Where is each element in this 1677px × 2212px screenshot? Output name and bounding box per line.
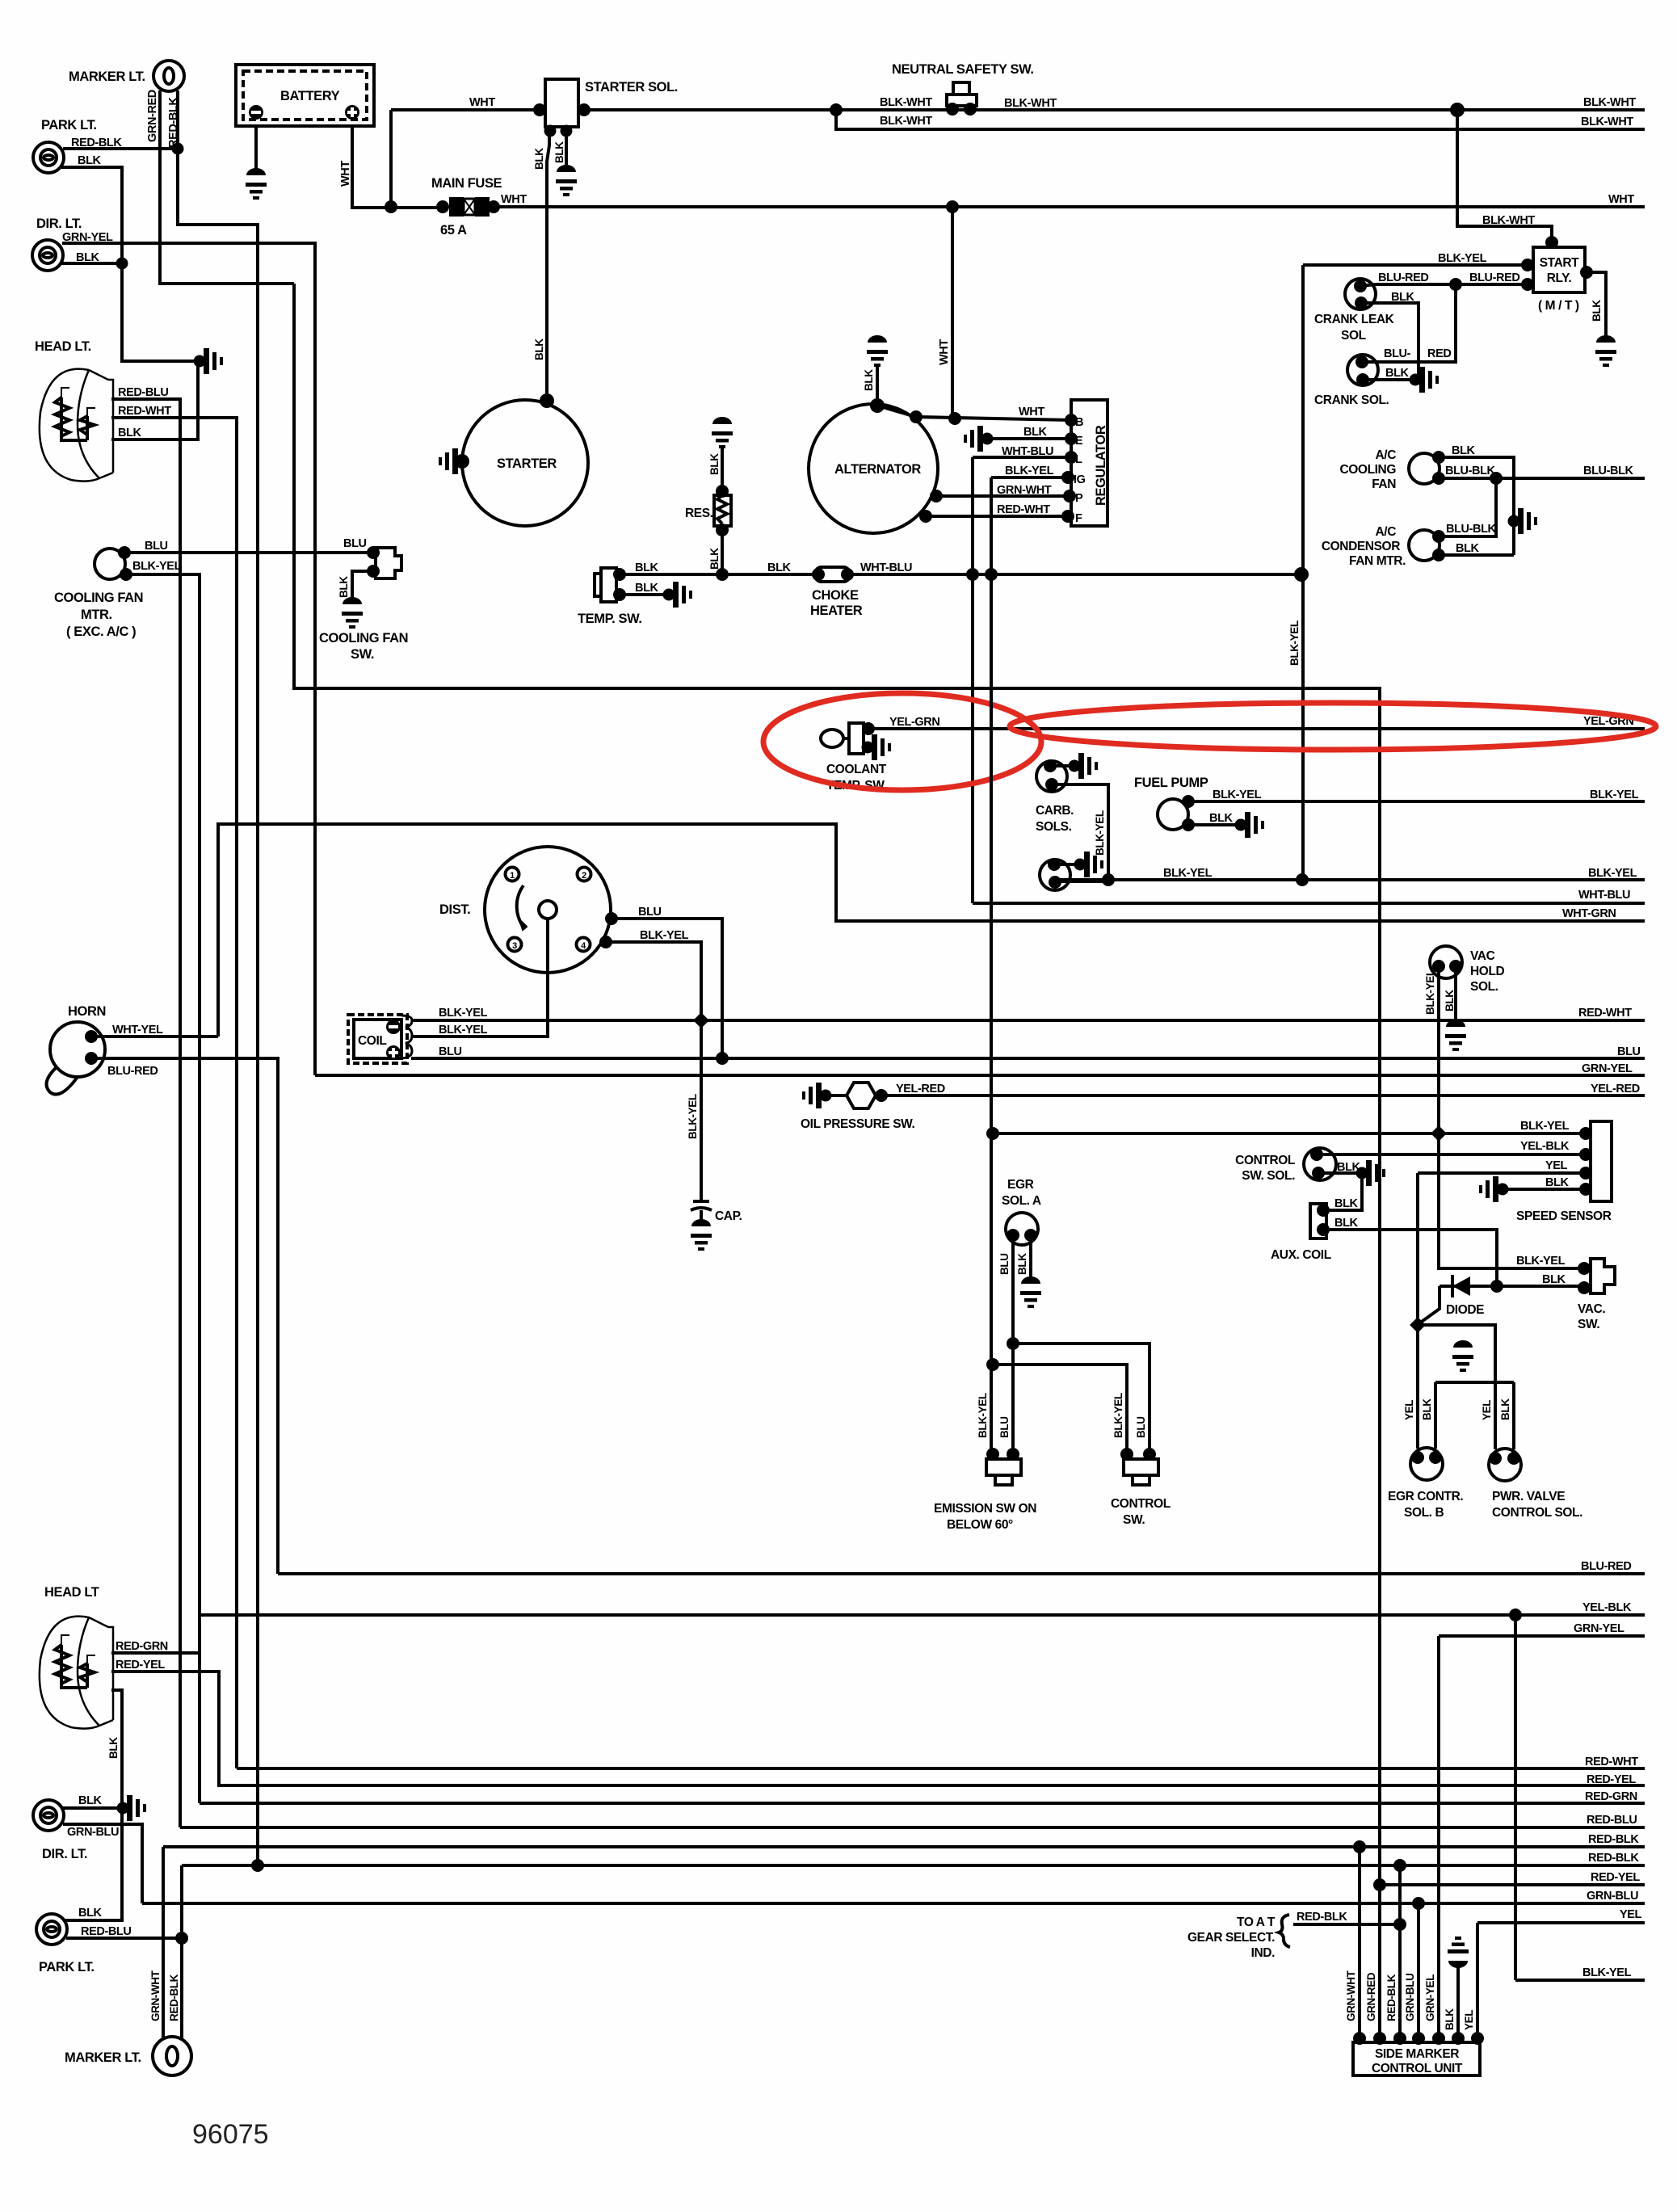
svg-text:ALTERNATOR: ALTERNATOR	[834, 462, 921, 477]
wire BLK park light 2	[65, 1808, 122, 1920]
junction dir BLK	[116, 258, 128, 270]
svg-text:BLK-YEL: BLK-YEL	[132, 560, 182, 573]
headlight 2 filaments	[55, 1645, 87, 1688]
wire BLU EGR sol A down	[1011, 1235, 1015, 1459]
svg-text:GRN-YEL: GRN-YEL	[62, 231, 113, 244]
svg-text:BLK-WHT: BLK-WHT	[880, 96, 932, 109]
svg-text:BLK-WHT: BLK-WHT	[880, 115, 932, 128]
svg-text:BLU: BLU	[439, 1045, 462, 1058]
svg-text:GRN-BLU: GRN-BLU	[67, 1826, 119, 1839]
wire WHT-BLU to regulator L	[973, 456, 1071, 459]
svg-text:MAIN FUSE: MAIN FUSE	[431, 176, 502, 191]
wire BLK ground to speed sensor	[1479, 1176, 1509, 1202]
wire GRN-YEL bus lower	[1439, 1634, 1645, 1638]
svg-text:BLK: BLK	[635, 561, 659, 574]
svg-text:VAC: VAC	[1470, 949, 1495, 963]
wire YEL-GRN bus	[868, 727, 1645, 730]
wire RED-YEL bus 2	[1380, 1883, 1645, 1886]
svg-text:E: E	[1075, 435, 1083, 448]
svg-text:BLU-: BLU-	[1384, 347, 1411, 360]
ground between solenoid BLK wires	[1452, 1340, 1473, 1372]
wire BLK start relay to ground	[1585, 272, 1606, 343]
svg-text:GEAR SELECT.: GEAR SELECT.	[1187, 1931, 1275, 1945]
wire YEL bus	[1477, 1921, 1645, 1924]
svg-text:DIR. LT.: DIR. LT.	[42, 1847, 87, 1861]
svg-text:BLK: BLK	[118, 427, 142, 439]
wire BLK alternator to ground	[876, 365, 879, 406]
cooling fan switch	[376, 548, 401, 578]
svg-text:RED-BLU: RED-BLU	[81, 1925, 131, 1938]
wire starter sol to BLK-WHT bus	[578, 108, 1645, 111]
wire BLU-BLK bus from a/c cooling fan	[1439, 477, 1645, 480]
wire BLK crank leak sol	[1361, 303, 1419, 376]
svg-text:RED-GRN: RED-GRN	[1585, 1790, 1637, 1803]
svg-text:BLK-YEL: BLK-YEL	[439, 1024, 488, 1037]
svg-text:STARTER SOL.: STARTER SOL.	[585, 80, 678, 95]
svg-text:BLK: BLK	[708, 548, 721, 570]
svg-text:BLK: BLK	[863, 369, 875, 391]
node WHT vertical from WHT bus to regulator B	[951, 207, 954, 418]
svg-text:YEL-RED: YEL-RED	[896, 1083, 945, 1095]
aux coil	[1310, 1204, 1326, 1238]
svg-text:SIDE MARKER: SIDE MARKER	[1375, 2047, 1459, 2061]
svg-text:BLK: BLK	[1334, 1217, 1359, 1230]
park light (lower)	[36, 1914, 67, 1945]
svg-text:SOL. B: SOL. B	[1404, 1506, 1444, 1520]
svg-text:BLK-YEL: BLK-YEL	[1588, 867, 1637, 880]
diode D1	[1440, 1285, 1584, 1288]
park light (top left)	[33, 142, 64, 173]
wire WHT-BLU bus lower	[973, 902, 1645, 905]
a/c condensor fan motor	[1409, 530, 1440, 561]
svg-text:BLK-YEL: BLK-YEL	[1438, 252, 1487, 265]
resistor RES.	[712, 417, 733, 448]
wire BLK starter sol to starter	[547, 127, 549, 401]
svg-text:YEL-RED: YEL-RED	[1591, 1083, 1640, 1095]
svg-text:TO A T: TO A T	[1237, 1916, 1276, 1929]
wire BLK-YEL to regulator IG	[991, 476, 1071, 479]
svg-text:FUEL PUMP: FUEL PUMP	[1134, 776, 1208, 790]
svg-text:BLK: BLK	[107, 1737, 120, 1759]
starter solenoid	[545, 79, 578, 127]
svg-text:RED-BLK: RED-BLK	[1297, 1911, 1347, 1924]
red ellipse around YEL-GRN wire	[1010, 703, 1656, 750]
svg-text:RED-WHT: RED-WHT	[1578, 1007, 1632, 1020]
wire RED-YEL from head light 2	[111, 1672, 1645, 1785]
svg-text:GRN-BLU: GRN-BLU	[1404, 1974, 1416, 2021]
svg-text:1: 1	[510, 871, 515, 881]
wire BLU-BLK to condensor fan	[1439, 478, 1496, 536]
svg-text:DIST.: DIST.	[439, 902, 470, 917]
wire BLK aux coil right	[1323, 1230, 1497, 1286]
wire WHT bus from fuse to right edge	[494, 205, 1645, 208]
control switch connector	[1124, 1459, 1158, 1475]
svg-text:CONTROL UNIT: CONTROL UNIT	[1372, 2062, 1463, 2075]
svg-text:RED-BLK: RED-BLK	[167, 97, 180, 148]
svg-text:GRN-YEL: GRN-YEL	[1574, 1622, 1624, 1635]
vac hold solenoid	[1430, 946, 1462, 978]
wire YEL branch to pwr valve control sol	[1418, 1325, 1495, 1449]
wire BLK a/c cooling fan	[1439, 457, 1514, 555]
ground at starter	[439, 448, 469, 474]
svg-text:GRN-RED: GRN-RED	[1365, 1972, 1377, 2021]
wire GRN-RED to side marker unit	[1378, 1885, 1381, 2038]
svg-text:BLU: BLU	[343, 537, 367, 550]
node vertical BLK-YEL from regulator IG down	[990, 477, 993, 1459]
cooling fan motor (exc a/c)	[95, 549, 125, 579]
svg-text:HORN: HORN	[68, 1004, 106, 1019]
red ellipse around coolant temp sw	[763, 693, 1041, 790]
svg-text:FAN MTR.: FAN MTR.	[1349, 554, 1406, 568]
wire YEL to EGR contr sol B	[1416, 1325, 1419, 1449]
wire GRN-BLU to side marker unit	[1417, 1903, 1420, 2038]
wire BLK temp sw upper to bus	[620, 573, 722, 576]
marker light (lower)	[153, 2037, 191, 2075]
svg-text:SOL. A: SOL. A	[1002, 1194, 1041, 1208]
svg-text:BLK: BLK	[1016, 1253, 1028, 1275]
svg-text:BLK-WHT: BLK-WHT	[1004, 97, 1057, 110]
junction on BLK-WHT bus	[830, 103, 843, 116]
svg-text:VAC.: VAC.	[1578, 1302, 1605, 1316]
wire BLK from dir light	[61, 262, 122, 265]
svg-text:EGR: EGR	[1007, 1178, 1034, 1192]
svg-text:BLU-RED: BLU-RED	[1581, 1560, 1631, 1573]
svg-text:RED-YEL: RED-YEL	[1587, 1773, 1636, 1786]
svg-text:BLK: BLK	[533, 339, 545, 360]
svg-text:TEMP. SW.: TEMP. SW.	[578, 612, 642, 626]
svg-text:RED-YEL: RED-YEL	[1591, 1871, 1640, 1884]
wire RED-BLK marker light 2	[180, 1865, 183, 2038]
svg-text:RED-BLK: RED-BLK	[71, 137, 122, 149]
wire BLK EGR sol A to ground	[1029, 1235, 1032, 1284]
wire BLK head light 2 down to ground	[111, 1690, 122, 1808]
svg-text:CRANK LEAK: CRANK LEAK	[1314, 313, 1395, 326]
svg-text:GRN-RED: GRN-RED	[146, 90, 159, 142]
junction YEL diamond	[1410, 1317, 1426, 1333]
svg-text:RED-GRN: RED-GRN	[116, 1640, 168, 1653]
wire BLU cooling fan motor to switch	[124, 551, 373, 554]
svg-text:RED-BLU: RED-BLU	[1587, 1814, 1637, 1827]
svg-text:BLK-YEL: BLK-YEL	[1213, 788, 1262, 801]
alternator	[809, 404, 938, 533]
carb solenoid 2	[1040, 860, 1070, 890]
control switch solenoid	[1304, 1148, 1336, 1180]
svg-text:2: 2	[582, 871, 586, 881]
emission switch connector	[986, 1459, 1021, 1475]
dist terminal 3	[508, 938, 522, 952]
svg-text:BLK: BLK	[1421, 1398, 1433, 1420]
svg-text:HEATER: HEATER	[810, 603, 863, 618]
svg-text:SW. SOL.: SW. SOL.	[1242, 1169, 1295, 1183]
svg-text:P: P	[1075, 492, 1083, 505]
wire BLK-YEL vertical start rly to blk-yel bus	[1301, 265, 1305, 879]
wire BLK-YEL carb sol 1 down	[1052, 784, 1108, 880]
svg-text:CHOKE: CHOKE	[812, 588, 859, 603]
svg-text:DIR. LT.: DIR. LT.	[36, 217, 82, 231]
svg-text:BLK: BLK	[76, 251, 100, 264]
wire BLK-YEL bus from fuel pump	[1188, 800, 1645, 803]
svg-text:GRN-YEL: GRN-YEL	[1424, 1974, 1436, 2021]
wire from dist center to coil	[411, 919, 548, 1037]
svg-text:BLU-BLK: BLU-BLK	[1583, 465, 1634, 477]
svg-text:SPEED SENSOR: SPEED SENSOR	[1516, 1209, 1612, 1223]
svg-text:GRN-YEL: GRN-YEL	[1582, 1062, 1633, 1075]
svg-text:WHT-GRN: WHT-GRN	[1562, 907, 1616, 920]
svg-text:RED-WHT: RED-WHT	[997, 503, 1050, 516]
wire BLU branch to control sw	[1013, 1344, 1150, 1459]
oil pressure switch	[802, 1083, 832, 1108]
wire BLK-YEL dist vertical to cap	[700, 1020, 703, 1201]
svg-text:COOLING: COOLING	[1339, 463, 1396, 477]
wire BLK-YEL vac hold sol down	[1439, 966, 1584, 1268]
svg-text:BLU-BLK: BLU-BLK	[1446, 523, 1497, 536]
wire BLK condensor fan	[1439, 553, 1514, 557]
wire RED-WHT from head light	[111, 418, 237, 1768]
wire BLK fuel pump to ground	[1188, 823, 1238, 826]
svg-text:YEL-BLK: YEL-BLK	[1520, 1140, 1570, 1153]
wire BLK-YEL bus to speed sensor	[993, 1132, 1584, 1135]
wire WHT-GRN bus (from horn WHT-YEL path)	[218, 824, 1645, 1037]
svg-text:( M / T ): ( M / T )	[1538, 299, 1579, 313]
wire BLK-YEL cooling fan motor	[126, 574, 200, 1803]
svg-text:BLU-RED: BLU-RED	[107, 1065, 158, 1078]
svg-text:BLK-YEL: BLK-YEL	[439, 1007, 488, 1020]
svg-text:SW.: SW.	[1123, 1513, 1145, 1527]
svg-text:RED-WHT: RED-WHT	[118, 405, 171, 418]
wire WHT to regulator B	[877, 406, 1071, 420]
svg-text:RLY.: RLY.	[1547, 271, 1572, 285]
wire BLK control sw sol to ground	[1318, 1171, 1359, 1175]
wire GRN-WHT alternator to regulator P	[935, 494, 1067, 498]
wire BLU-RED bus (from horn)	[278, 1572, 1645, 1575]
svg-text:BLU: BLU	[998, 1416, 1011, 1438]
wire GRN-YEL from dir light	[62, 243, 315, 1075]
svg-text:DIODE: DIODE	[1446, 1303, 1484, 1317]
svg-text:L: L	[1075, 453, 1082, 466]
wire RED-BLK to side marker unit	[1398, 1865, 1402, 2038]
wire YEL-BLK bus	[200, 1613, 1645, 1617]
wire BLK-WHT to start relay	[1457, 110, 1552, 247]
wire BLK-YEL to start relay	[1303, 263, 1533, 267]
distributor	[485, 847, 611, 973]
svg-text:3: 3	[512, 941, 517, 951]
wire BLK ground to regulator E	[964, 426, 994, 452]
crank solenoid	[1347, 355, 1378, 385]
wire BLK-YEL branch to control sw	[993, 1365, 1127, 1459]
svg-text:BLK: BLK	[1456, 542, 1480, 555]
svg-text:OIL PRESSURE SW.: OIL PRESSURE SW.	[801, 1117, 915, 1131]
wire RED-BLU from head light	[111, 399, 180, 1827]
svg-text:WHT: WHT	[1608, 193, 1634, 206]
svg-text:STARTER: STARTER	[497, 456, 557, 471]
svg-text:BLK: BLK	[1209, 812, 1234, 825]
wire RED-BLU park light 2	[66, 1937, 182, 1940]
svg-text:A/C: A/C	[1376, 448, 1397, 462]
wire BLK-WHT second bus	[836, 110, 1645, 129]
svg-text:WHT: WHT	[938, 339, 951, 365]
speed sensor	[1591, 1121, 1612, 1201]
svg-text:BLK: BLK	[1499, 1398, 1511, 1420]
crank leak solenoid	[1345, 279, 1376, 309]
headlight filaments	[55, 397, 87, 440]
svg-text:COIL: COIL	[358, 1034, 386, 1048]
svg-text:BLK-YEL: BLK-YEL	[1582, 1966, 1632, 1979]
svg-text:BLK-YEL: BLK-YEL	[1163, 867, 1213, 880]
wire BLK EGR contr sol B	[1434, 1382, 1437, 1449]
svg-text:BLU-RED: BLU-RED	[1378, 271, 1428, 284]
svg-text:GRN-WHT: GRN-WHT	[1345, 1970, 1357, 2021]
wire WHT-YEL from horn	[91, 1035, 218, 1038]
svg-text:RED-WHT: RED-WHT	[1585, 1756, 1638, 1768]
svg-text:SOL: SOL	[1341, 329, 1366, 343]
svg-text:BLK-YEL: BLK-YEL	[977, 1393, 989, 1438]
svg-text:BLK-YEL: BLK-YEL	[1112, 1393, 1124, 1438]
svg-text:CONTROL: CONTROL	[1111, 1497, 1171, 1511]
coolant temp switch	[821, 730, 843, 747]
svg-text:BLK: BLK	[78, 1794, 103, 1807]
wire GRN-BLU from dir light 2	[63, 1824, 142, 1903]
junction BLU-BLK	[1490, 472, 1503, 485]
wire RED-BLK bus 1	[163, 1845, 1645, 1848]
wire BLK bus to choke heater	[722, 573, 815, 576]
svg-text:COOLING FAN: COOLING FAN	[319, 631, 408, 646]
dist rotation arrow	[517, 885, 525, 929]
svg-text:BLK-YEL: BLK-YEL	[1288, 620, 1301, 666]
wire BLK ground to side marker unit	[1448, 1937, 1469, 1968]
svg-text:BLK-WHT: BLK-WHT	[1581, 116, 1633, 128]
svg-text:BLK: BLK	[1391, 291, 1415, 304]
marker light (top left)	[153, 61, 184, 91]
svg-text:BLK: BLK	[1334, 1197, 1359, 1210]
svg-text:WHT: WHT	[469, 96, 495, 109]
svg-text:BLK: BLK	[78, 1907, 103, 1920]
ignition coil	[348, 1015, 407, 1063]
svg-text:BLK: BLK	[338, 576, 350, 598]
wire GRN-YEL bus	[315, 1074, 1645, 1077]
dist terminal 1	[506, 868, 519, 881]
svg-text:BLK: BLK	[1542, 1273, 1566, 1286]
svg-text:BLK-WHT: BLK-WHT	[1482, 214, 1535, 227]
svg-text:PWR. VALVE: PWR. VALVE	[1492, 1490, 1565, 1503]
side marker control unit	[1353, 2032, 1366, 2045]
svg-text:IND.: IND.	[1251, 1946, 1275, 1960]
svg-text:WHT: WHT	[339, 161, 352, 187]
svg-text:CONTROL SOL.: CONTROL SOL.	[1492, 1506, 1582, 1520]
svg-text:BLK: BLK	[533, 148, 545, 170]
svg-text:MTR.: MTR.	[81, 608, 112, 622]
capacitor CAP.	[693, 1200, 709, 1203]
svg-text:EGR CONTR.: EGR CONTR.	[1388, 1490, 1463, 1503]
svg-text:BLK: BLK	[1385, 367, 1410, 380]
svg-text:WHT-BLU: WHT-BLU	[1002, 445, 1053, 458]
regulator U1	[1071, 400, 1107, 526]
svg-text:SW.: SW.	[1578, 1318, 1599, 1331]
svg-text:B: B	[1075, 416, 1083, 429]
battery minus wire to ground	[254, 126, 258, 175]
node vertical WHT from starter sol	[389, 110, 393, 207]
svg-text:RED-BLU: RED-BLU	[118, 386, 168, 399]
wire BLK temp sw lower to ground	[620, 593, 666, 596]
choke heater	[815, 567, 850, 582]
svg-text:CONDENSOR: CONDENSOR	[1322, 540, 1400, 553]
svg-text:EMISSION SW ON: EMISSION SW ON	[934, 1502, 1036, 1516]
svg-text:BLK-YEL: BLK-YEL	[640, 929, 689, 942]
wire GRN-RED from marker light	[160, 90, 294, 284]
wire RED-BLU bus bottom	[180, 1826, 1645, 1829]
wire BLK vac hold sol to ground	[1454, 966, 1457, 1027]
svg-text:RED-BLK: RED-BLK	[168, 1974, 180, 2021]
wire BLK ground stem to aux coil	[1326, 1173, 1362, 1210]
svg-text:MARKER LT.: MARKER LT.	[65, 2050, 141, 2065]
svg-text:YEL-BLK: YEL-BLK	[1582, 1601, 1632, 1614]
svg-text:RED-BLK: RED-BLK	[1588, 1852, 1639, 1865]
svg-text:BLU: BLU	[998, 1253, 1011, 1275]
svg-text:START: START	[1540, 256, 1579, 270]
wire BLU coil bus	[411, 1057, 1645, 1060]
svg-text:BLK: BLK	[1444, 2008, 1456, 2030]
svg-text:MARKER LT.: MARKER LT.	[69, 69, 145, 84]
svg-text:CONTROL: CONTROL	[1235, 1154, 1295, 1167]
svg-text:RED: RED	[1427, 347, 1451, 360]
svg-text:BLU: BLU	[638, 906, 662, 919]
wire BLK coolant temp sw to ground	[864, 746, 866, 749]
wire BLK from park light	[61, 167, 196, 361]
pwr. valve control sol.	[1489, 1449, 1521, 1481]
svg-text:BATTERY: BATTERY	[280, 89, 340, 103]
starter	[462, 400, 588, 526]
wire BLK crank sol to ground	[1363, 378, 1413, 381]
wire GRN-BLU bus	[142, 1902, 1645, 1905]
EGR sol A	[1006, 1213, 1038, 1245]
junction BLK-WHT to start relay	[1450, 103, 1465, 117]
svg-text:WHT-YEL: WHT-YEL	[112, 1024, 163, 1037]
svg-text:BLK-YEL: BLK-YEL	[1005, 465, 1054, 477]
svg-text:RED-BLK: RED-BLK	[1588, 1833, 1639, 1846]
svg-text:BLU-BLK: BLU-BLK	[1445, 465, 1496, 477]
wire RED-BLK bus 2	[182, 1864, 1645, 1867]
wire BLK starter sol to ground	[565, 127, 568, 172]
wire BLK from head light to ground	[111, 365, 198, 439]
junction park RED-BLK	[172, 143, 184, 155]
wire YEL to speed sensor	[1418, 1171, 1584, 1175]
wire GRN-WHT marker light 2	[162, 1847, 165, 2038]
dir light (lower)	[33, 1800, 64, 1831]
svg-text:GRN-WHT: GRN-WHT	[997, 484, 1052, 497]
svg-text:BLK-YEL: BLK-YEL	[687, 1094, 699, 1139]
ground on BLK fan wire	[1508, 508, 1538, 534]
svg-text:PARK LT.: PARK LT.	[39, 1960, 95, 1974]
battery plus wire WHT	[352, 126, 443, 208]
wire BLU from dist	[611, 919, 722, 1058]
svg-text:96075: 96075	[192, 2119, 269, 2150]
svg-text:YEL-GRN: YEL-GRN	[889, 716, 939, 729]
svg-text:BLU: BLU	[1135, 1416, 1147, 1438]
svg-text:AUX. COIL: AUX. COIL	[1271, 1248, 1331, 1262]
wire BLK-YEL bus bottom	[1515, 1979, 1645, 1982]
wire WHT-BLU bus from choke heater	[850, 573, 1301, 576]
wire WHT battery to starter sol	[391, 108, 545, 111]
wire long bus from marker GRN-RED path across to right	[294, 284, 1380, 1885]
svg-text:BLK: BLK	[1023, 426, 1048, 439]
svg-text:WHT: WHT	[501, 193, 527, 206]
svg-text:PARK LT.: PARK LT.	[41, 118, 97, 132]
carb solenoid 1	[1036, 761, 1067, 792]
wire BLK-YEL from dist	[605, 942, 701, 1020]
wire RED-WHT alternator to regulator F	[924, 515, 1065, 518]
svg-text:BLK: BLK	[1545, 1176, 1570, 1189]
EGR contr. sol. B	[1410, 1448, 1443, 1480]
svg-text:BLK-YEL: BLK-YEL	[1516, 1255, 1566, 1268]
